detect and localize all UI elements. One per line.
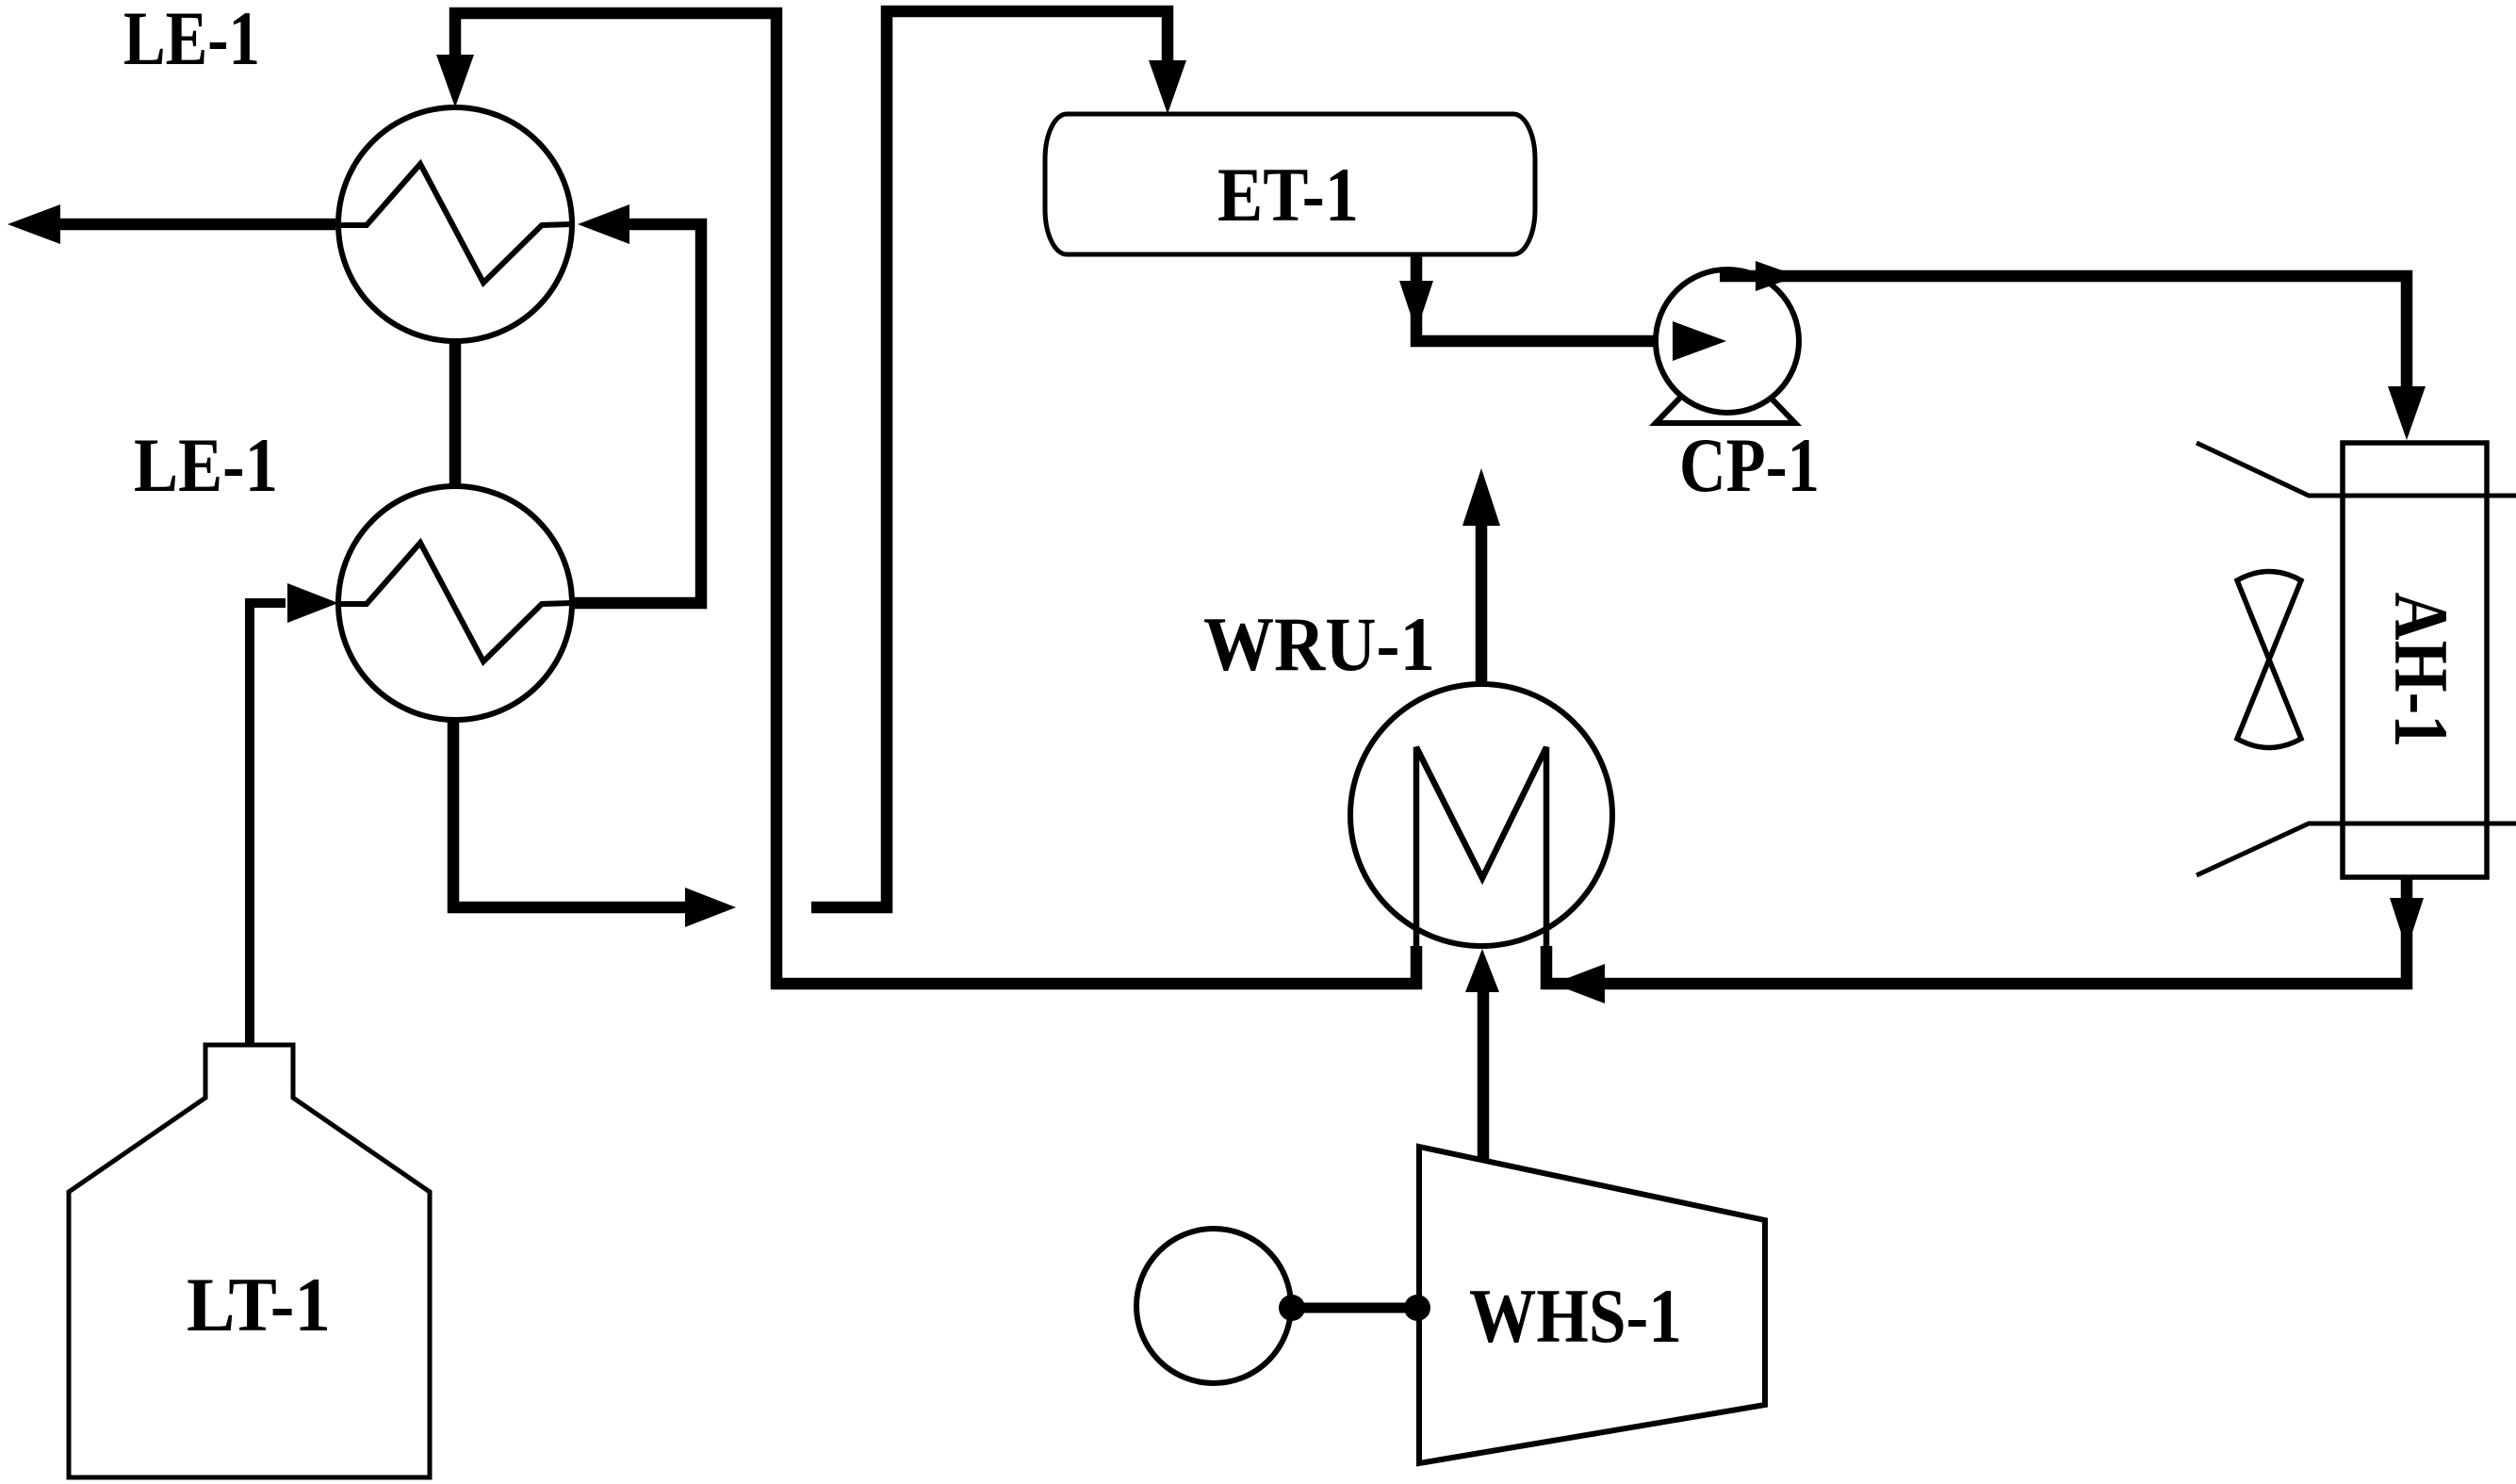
heat exchanger LE-1 top: zigzag xyxy=(338,164,572,283)
shaft dot right xyxy=(1404,1295,1430,1321)
motor shaft xyxy=(1288,1303,1418,1313)
wire: LE-1 bottom to LE-1 top right loop xyxy=(574,224,701,603)
heat exchanger LE-1 bottom: circle xyxy=(338,486,572,720)
air cooler AH-1: upper duct line through body xyxy=(2197,443,2516,496)
wire: WRU-1 top vent outlet xyxy=(1476,526,1488,684)
svg-text:LE-1: LE-1 xyxy=(134,422,278,508)
arrow into CP-1 xyxy=(1673,321,1726,361)
pump CP-1 circle xyxy=(1656,269,1799,413)
small arrow on CP-1 discharge xyxy=(1756,261,1798,291)
wire: stub to vertical riser x=941 and over to ET-1 xyxy=(811,11,1168,907)
svg-text:WHS-1: WHS-1 xyxy=(1469,1273,1682,1359)
motor circle xyxy=(1136,1229,1291,1383)
wire: AH-1 bottom outlet to WRU-1 right leg xyxy=(1546,877,2407,984)
arrow into LE-1 top right side xyxy=(578,204,629,244)
svg-text:LE-1: LE-1 xyxy=(123,0,260,81)
arrow down on AH-1 outlet xyxy=(2390,898,2424,950)
arrow into CP-1 (over circle) xyxy=(1673,321,1726,361)
pump CP-1 base xyxy=(1656,351,1795,423)
wire: LE-1 bottom outlet going right xyxy=(453,721,685,907)
heat exchanger LE-1 top: circle xyxy=(338,107,572,341)
svg-text:AH-1: AH-1 xyxy=(2378,593,2464,748)
wire: between LE-1 exchangers xyxy=(449,342,462,485)
arrow left outlet xyxy=(8,204,60,244)
svg-text:ET-1: ET-1 xyxy=(1217,152,1359,237)
WRU-1 M coil xyxy=(1416,747,1546,950)
fan symbol xyxy=(2237,572,2301,748)
air cooler AH-1 body xyxy=(2343,443,2487,877)
wire: LT-1 to LE-1 bottom inlet xyxy=(250,603,286,1045)
heat exchanger LE-1 bottom: zigzag xyxy=(338,543,572,661)
arrow into LE-1 bottom left side xyxy=(287,583,338,623)
arrow down on ET-1 outlet xyxy=(1399,281,1433,332)
shaft dot left xyxy=(1279,1295,1305,1321)
arrow at crossing break xyxy=(685,888,736,927)
air cooler AH-1: lower duct line through body xyxy=(2197,824,2516,875)
svg-text:LT-1: LT-1 xyxy=(187,1262,331,1347)
arrow left into WRU-1 right leg xyxy=(1553,964,1605,1003)
tank LT-1 xyxy=(69,1045,430,1477)
wire: ET-1 outlet down then right to CP-1 xyxy=(1416,254,1675,341)
arrow into AH-1 top xyxy=(2388,386,2426,440)
wire: WHS-1 to WRU-1 xyxy=(1478,989,1490,1160)
arrow into ET-1 xyxy=(1149,60,1186,114)
wire: CP-1 discharge to AH-1 xyxy=(1720,276,2407,388)
arrow up vent xyxy=(1462,468,1500,526)
wire: WRU-1 left leg to LE-1 top inlet (long loop via x=824) xyxy=(455,13,1416,984)
arrow up into WRU-1 bottom xyxy=(1465,949,1499,992)
heat exchanger WRU-1 circle xyxy=(1350,684,1612,946)
svg-text:WRU-1: WRU-1 xyxy=(1203,601,1435,687)
wire: LE-1 top left outlet xyxy=(58,219,335,231)
vessel ET-1 xyxy=(1045,114,1535,254)
svg-text:CP-1: CP-1 xyxy=(1679,422,1820,508)
arrow into LE-1 top heat exchanger xyxy=(436,55,474,107)
turbine WHS-1 xyxy=(1419,1147,1765,1463)
